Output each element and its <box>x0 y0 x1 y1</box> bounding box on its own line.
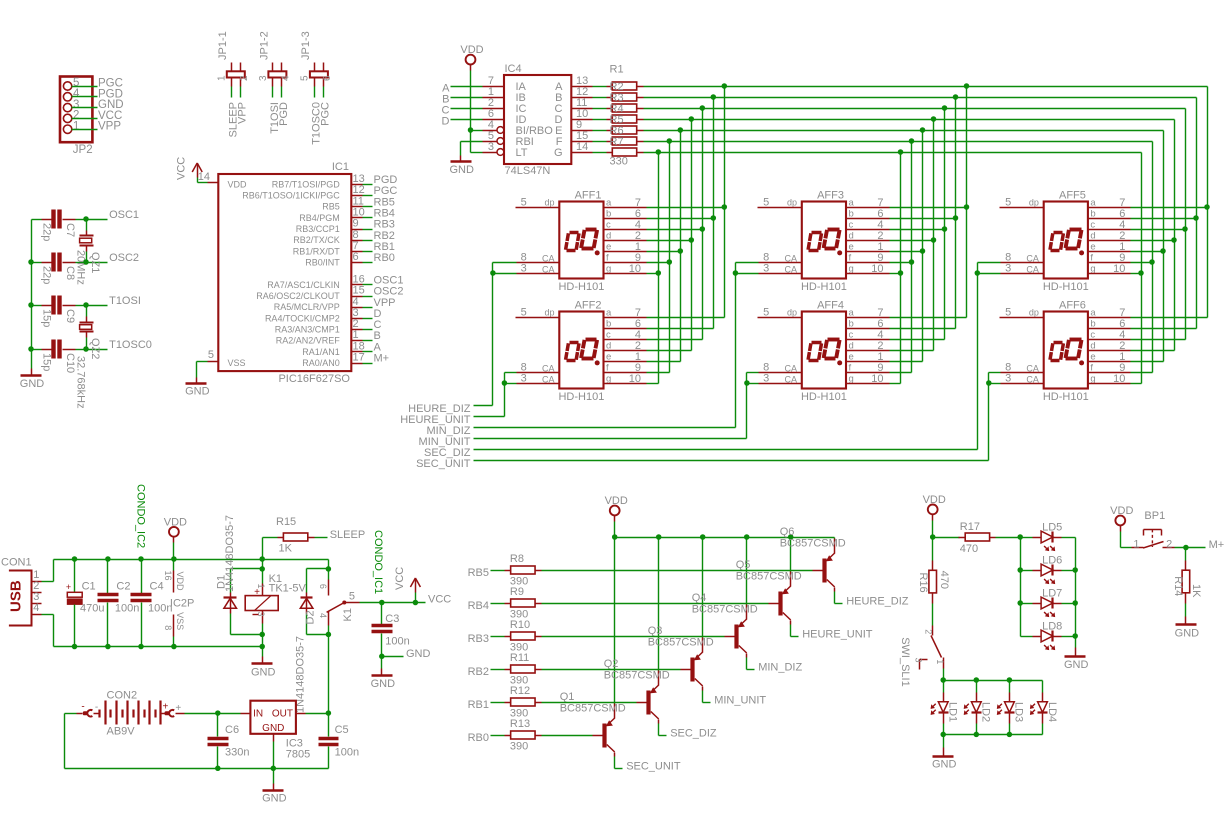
wire <box>932 538 934 561</box>
wire <box>988 373 990 461</box>
junction <box>1017 534 1023 540</box>
svg-text:390: 390 <box>510 642 528 654</box>
svg-text:3: 3 <box>521 373 527 385</box>
wire <box>736 273 759 275</box>
wire segment bus a <box>644 86 1208 88</box>
wire <box>231 568 263 570</box>
wire <box>890 218 956 220</box>
svg-text:C6: C6 <box>225 724 239 736</box>
svg-text:RB0: RB0 <box>468 732 489 744</box>
svg-text:TK1-5V: TK1-5V <box>269 582 307 594</box>
ground <box>449 156 474 177</box>
wire <box>474 449 978 451</box>
wire <box>1062 570 1076 572</box>
svg-text:R13: R13 <box>510 718 530 730</box>
wire segment bus f <box>644 141 1153 143</box>
wire <box>474 460 989 462</box>
resistor R17 470 <box>959 521 996 555</box>
wire <box>196 362 198 378</box>
junction <box>656 534 662 540</box>
svg-text:OSC2: OSC2 <box>109 252 139 264</box>
pin 14 <box>208 182 219 184</box>
svg-text:GND: GND <box>1175 627 1200 639</box>
wire <box>76 349 87 351</box>
svg-text:LD4: LD4 <box>1046 702 1058 722</box>
svg-text:1N4148DO35-7: 1N4148DO35-7 <box>224 515 236 592</box>
pin CA <box>759 372 802 374</box>
svg-text:2: 2 <box>239 75 250 81</box>
pin b <box>1088 218 1131 220</box>
wire <box>185 713 241 715</box>
pin dp <box>516 207 560 209</box>
wire VDD rail <box>54 559 329 561</box>
resistor R15 1K <box>276 516 315 555</box>
wire <box>542 570 813 572</box>
wire <box>491 702 505 704</box>
svg-text:R14: R14 <box>1172 576 1184 596</box>
svg-text:CONDO_IC2: CONDO_IC2 <box>135 484 147 548</box>
svg-text:BC857CSMD: BC857CSMD <box>560 703 626 715</box>
junction <box>930 534 936 540</box>
wire <box>1131 218 1197 220</box>
supply VDD <box>1110 505 1133 532</box>
ic IC1 PIC16F627SO <box>218 161 351 385</box>
svg-text:RB7/T1OSI/PGD: RB7/T1OSI/PGD <box>272 179 341 189</box>
wire <box>197 178 199 183</box>
wire <box>702 691 704 703</box>
wire <box>542 735 593 737</box>
svg-text:RB2/TX/CK: RB2/TX/CK <box>293 235 340 245</box>
wire <box>702 538 704 638</box>
wire <box>363 318 373 320</box>
svg-text:20MHz: 20MHz <box>75 250 87 285</box>
pin CA <box>517 383 560 385</box>
svg-text:16: 16 <box>163 571 173 581</box>
svg-text:15p: 15p <box>41 309 53 327</box>
wire <box>492 263 494 406</box>
wire <box>890 273 901 275</box>
wire <box>451 86 483 88</box>
junction <box>974 677 980 683</box>
svg-text:dp: dp <box>544 308 554 318</box>
transistor Q6 BC857CSMD <box>780 526 846 591</box>
wire <box>647 361 681 363</box>
svg-text:BC857CSMD: BC857CSMD <box>692 604 758 616</box>
pin 2 <box>483 108 505 110</box>
wire <box>542 603 769 605</box>
wire <box>262 624 264 647</box>
svg-text:C9: C9 <box>64 309 76 323</box>
pin d <box>847 350 890 352</box>
wire <box>542 702 637 704</box>
wire <box>315 537 328 539</box>
wire <box>328 626 330 635</box>
svg-text:R12: R12 <box>510 685 530 697</box>
svg-text:HD-H101: HD-H101 <box>1043 391 1089 403</box>
svg-text:VSS: VSS <box>175 612 185 630</box>
junction <box>920 127 926 133</box>
wire <box>996 537 1021 539</box>
svg-text:SEC_DIZ: SEC_DIZ <box>670 728 717 740</box>
svg-text:VDD: VDD <box>228 179 248 189</box>
wire <box>647 262 670 264</box>
resistor R11 390 <box>505 652 542 687</box>
svg-text:AFF6: AFF6 <box>1059 300 1086 312</box>
wire <box>1131 229 1186 231</box>
svg-text:5: 5 <box>1005 197 1011 209</box>
junction <box>379 600 385 606</box>
wire <box>1175 547 1206 549</box>
wire <box>736 262 759 264</box>
junction <box>413 600 419 606</box>
svg-text:VDD: VDD <box>1110 505 1133 517</box>
svg-text:6: 6 <box>322 75 333 81</box>
wire <box>890 207 967 209</box>
svg-text:R9: R9 <box>510 586 524 598</box>
wire <box>593 141 607 143</box>
pin g <box>1088 273 1131 275</box>
svg-text:1: 1 <box>256 584 266 589</box>
resistor R1 <box>607 82 644 90</box>
svg-text:4: 4 <box>280 75 291 81</box>
wire <box>32 262 42 264</box>
wire <box>989 383 1001 385</box>
svg-text:1: 1 <box>1133 539 1139 551</box>
svg-text:RA1/AN1: RA1/AN1 <box>302 347 340 357</box>
wire <box>53 615 55 647</box>
svg-text:GND: GND <box>251 666 276 678</box>
wire <box>474 405 493 407</box>
wire <box>647 229 703 231</box>
pin a <box>847 207 890 209</box>
svg-text:2: 2 <box>923 629 933 634</box>
svg-text:C8: C8 <box>64 266 76 280</box>
junction <box>667 138 673 144</box>
led LD5 <box>1041 522 1062 551</box>
pin 2 <box>32 592 42 594</box>
pin 12 <box>352 195 363 197</box>
junction <box>138 644 144 650</box>
junction <box>83 302 89 308</box>
svg-text:1: 1 <box>216 75 227 81</box>
svg-text:VDD: VDD <box>460 44 483 56</box>
junction <box>83 346 89 352</box>
junction <box>711 215 717 221</box>
junction <box>953 215 959 221</box>
wire <box>593 152 607 154</box>
resistor R5 <box>607 126 644 134</box>
pin 7 <box>483 86 505 88</box>
junction <box>28 259 34 265</box>
wire <box>363 329 373 331</box>
svg-text:5: 5 <box>763 197 769 209</box>
wire <box>263 537 278 539</box>
wire <box>415 593 417 603</box>
svg-text:Q1: Q1 <box>560 691 575 703</box>
svg-text:7805: 7805 <box>286 749 310 761</box>
wire <box>363 240 373 242</box>
svg-text:HD-H101: HD-H101 <box>801 281 847 293</box>
pin e <box>847 251 890 253</box>
wire <box>658 724 660 736</box>
svg-text:17: 17 <box>353 352 365 364</box>
wire <box>1009 681 1011 693</box>
resistor R2 <box>607 93 644 101</box>
wire battery ground return <box>65 768 329 770</box>
svg-text:3: 3 <box>763 373 769 385</box>
svg-text:CON2: CON2 <box>107 689 138 701</box>
pin 5 <box>208 361 219 363</box>
pin g <box>847 273 890 275</box>
junction <box>171 556 177 562</box>
wire <box>471 152 483 154</box>
svg-text:M+: M+ <box>374 353 390 365</box>
svg-text:R8: R8 <box>510 553 524 565</box>
wire <box>31 220 33 369</box>
svg-text:SLEEP: SLEEP <box>330 529 365 541</box>
pin CA <box>759 383 802 385</box>
svg-text:8: 8 <box>163 625 173 630</box>
wire <box>491 636 505 638</box>
wire <box>42 581 54 583</box>
svg-text:5: 5 <box>521 307 527 319</box>
pin e <box>604 361 647 363</box>
svg-text:HEURE_DIZ: HEURE_DIZ <box>846 596 909 608</box>
wire <box>363 184 373 186</box>
svg-text:HD-H101: HD-H101 <box>1043 281 1089 293</box>
svg-text:SEC_UNIT: SEC_UNIT <box>416 458 471 470</box>
pin CA <box>759 262 802 264</box>
wire <box>647 339 703 341</box>
resistor R14 1K <box>1172 561 1202 604</box>
wire <box>1185 604 1187 617</box>
pin g <box>1088 383 1131 385</box>
wire <box>491 603 505 605</box>
svg-text:R1: R1 <box>610 64 624 76</box>
resistor R16 470 <box>917 561 950 604</box>
pin 5 <box>497 138 504 145</box>
junction <box>490 270 496 276</box>
svg-text:GND: GND <box>371 678 396 690</box>
junction <box>931 237 937 243</box>
svg-text:5: 5 <box>299 75 310 81</box>
wire <box>328 747 330 769</box>
svg-text:R17: R17 <box>960 521 980 533</box>
capacitor C9 <box>41 296 77 328</box>
wire <box>1196 98 1198 329</box>
svg-text:PGC: PGC <box>319 102 331 126</box>
svg-text:5: 5 <box>349 590 355 602</box>
battery connector CON2 AB9V <box>77 689 185 737</box>
pin b <box>847 328 890 330</box>
wire <box>493 262 517 264</box>
led LD4 <box>1031 702 1058 722</box>
svg-text:D2: D2 <box>305 610 317 624</box>
wire <box>363 351 373 353</box>
wire segment bus e <box>644 130 1164 132</box>
svg-text:JP1-3: JP1-3 <box>300 31 312 60</box>
wire <box>363 229 373 231</box>
wire <box>647 240 692 242</box>
wire <box>72 118 98 120</box>
wire anode rail <box>944 680 1043 682</box>
pin 17 <box>352 363 363 365</box>
wire <box>262 647 264 657</box>
wire <box>614 522 616 538</box>
wire <box>42 614 54 616</box>
wire <box>32 305 42 307</box>
wire <box>1075 538 1077 648</box>
wire <box>1131 339 1186 341</box>
ground <box>1175 617 1200 640</box>
svg-text:GND: GND <box>1064 659 1089 671</box>
display AFF1 HD-H101 <box>542 190 612 294</box>
wire <box>231 87 233 98</box>
svg-text:RB6/T1OSO/1ICKI/PGC: RB6/T1OSO/1ICKI/PGC <box>242 191 340 201</box>
wire <box>966 87 968 318</box>
wire <box>659 735 667 737</box>
junction <box>171 644 177 650</box>
svg-text:14: 14 <box>576 141 588 153</box>
svg-text:RB5: RB5 <box>468 567 489 579</box>
resistor R6 <box>607 137 644 145</box>
svg-text:GND: GND <box>932 759 957 771</box>
wire <box>381 657 383 669</box>
junction <box>1007 677 1013 683</box>
svg-text:T1OSI: T1OSI <box>109 295 141 307</box>
pin d <box>1088 350 1131 352</box>
wire <box>989 372 1001 374</box>
svg-text:VDD: VDD <box>175 572 185 592</box>
wire <box>1131 207 1208 209</box>
wire <box>1121 547 1132 549</box>
wire <box>1009 724 1011 735</box>
pin a <box>604 317 647 319</box>
wire <box>72 86 98 88</box>
wire <box>746 373 748 439</box>
svg-text:15p: 15p <box>41 353 53 371</box>
wire <box>1062 603 1076 605</box>
resistor R9 390 <box>505 586 542 621</box>
pin CA <box>1001 372 1044 374</box>
pin 1 <box>483 97 505 99</box>
pin 12 <box>572 97 593 99</box>
svg-text:GND: GND <box>185 386 210 398</box>
wire <box>65 713 77 715</box>
junction <box>909 259 915 265</box>
svg-text:dp: dp <box>1029 198 1039 208</box>
pin g <box>604 273 647 275</box>
pin a <box>1088 317 1131 319</box>
transistor Q1 BC857CSMD <box>560 691 626 756</box>
junction <box>105 556 111 562</box>
capacitor C5 100n <box>319 724 360 759</box>
junction <box>711 94 717 100</box>
pin 1 <box>352 340 363 342</box>
wire <box>943 735 945 748</box>
ground <box>932 748 957 771</box>
junction <box>678 127 684 133</box>
svg-text:390: 390 <box>510 576 528 588</box>
led LD6 <box>1041 555 1062 584</box>
wire <box>360 602 426 604</box>
wire <box>1163 131 1165 362</box>
wire <box>1131 372 1153 374</box>
svg-text:10: 10 <box>629 263 641 275</box>
wire <box>647 328 714 330</box>
wire <box>87 219 108 221</box>
junction <box>259 556 265 562</box>
pin 4 <box>497 127 504 134</box>
svg-text:3: 3 <box>521 263 527 275</box>
svg-text:Q2: Q2 <box>604 658 619 670</box>
svg-text:3: 3 <box>258 75 269 81</box>
wire <box>647 350 692 352</box>
junction <box>1007 732 1013 738</box>
wire <box>32 219 42 221</box>
wire <box>593 108 607 110</box>
svg-text:BC857CSMD: BC857CSMD <box>648 637 714 649</box>
pin CA <box>517 262 560 264</box>
wire <box>658 538 660 671</box>
svg-text:100n: 100n <box>115 603 139 615</box>
svg-text:GND: GND <box>406 648 431 660</box>
wire <box>790 538 792 572</box>
wire <box>724 87 726 318</box>
pin b <box>1088 328 1131 330</box>
wire <box>1131 361 1164 363</box>
svg-text:470: 470 <box>960 543 978 555</box>
wire <box>890 383 901 385</box>
junction <box>1160 248 1166 254</box>
junction <box>138 556 144 562</box>
svg-text:QZ1: QZ1 <box>89 252 101 273</box>
svg-text:AFF2: AFF2 <box>575 300 602 312</box>
wire <box>307 634 329 636</box>
svg-text:R10: R10 <box>510 619 530 631</box>
svg-text:SWI_SLI1: SWI_SLI1 <box>899 637 911 687</box>
wire segment bus d <box>644 119 1175 121</box>
transistor Q2 BC857CSMD <box>604 658 670 723</box>
crystal QZ1 <box>75 220 102 285</box>
wire <box>470 71 472 153</box>
junction <box>940 677 946 683</box>
wire <box>474 438 747 440</box>
junction <box>28 346 34 352</box>
connector CON1 USB <box>1 557 32 626</box>
svg-text:RA0/AN0: RA0/AN0 <box>302 358 340 368</box>
junction <box>326 710 332 716</box>
wire <box>87 262 108 264</box>
wire <box>471 130 483 132</box>
svg-text:C5: C5 <box>335 724 349 736</box>
wire <box>790 625 792 637</box>
svg-text:GND: GND <box>262 723 284 734</box>
pin 3 <box>497 149 504 156</box>
wire <box>1020 538 1022 637</box>
svg-text:5: 5 <box>208 349 214 361</box>
pin c <box>847 339 890 341</box>
wire <box>890 262 912 264</box>
svg-text:-: - <box>81 702 84 713</box>
junction <box>259 644 265 650</box>
wire <box>491 669 505 671</box>
pin CA <box>1001 262 1044 264</box>
display AFF4 HD-H101 <box>784 300 854 404</box>
wire <box>890 317 967 319</box>
wire <box>834 592 836 604</box>
svg-text:LD1: LD1 <box>947 702 959 722</box>
